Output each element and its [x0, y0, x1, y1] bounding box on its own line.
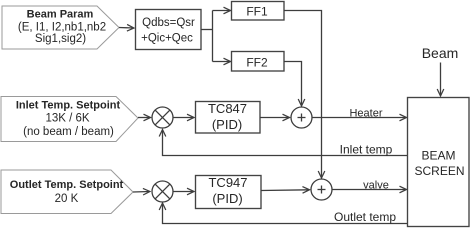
svg-text:Beam: Beam	[422, 45, 459, 61]
svg-text:valve: valve	[363, 180, 389, 192]
svg-text:Inlet temp: Inlet temp	[340, 143, 393, 157]
svg-text:TC847: TC847	[208, 101, 247, 116]
svg-text:SCREEN: SCREEN	[414, 164, 464, 178]
svg-text:FF1: FF1	[246, 4, 268, 18]
svg-text:Qdbs=Qsr: Qdbs=Qsr	[142, 17, 195, 29]
svg-text:(no beam / beam): (no beam / beam)	[23, 126, 114, 138]
svg-text:Heater: Heater	[349, 108, 382, 120]
svg-text:(PID): (PID)	[212, 117, 242, 132]
svg-text:BEAM: BEAM	[421, 149, 455, 163]
svg-text:Outlet Temp. Setpoint: Outlet Temp. Setpoint	[10, 179, 124, 191]
svg-text:Inlet Temp. Setpoint: Inlet Temp. Setpoint	[16, 100, 121, 112]
svg-text:13K / 6K: 13K / 6K	[45, 113, 89, 125]
svg-text:+Qic+Qec: +Qic+Qec	[141, 33, 193, 45]
svg-text:(E, I1, I2,nb1,nb2: (E, I1, I2,nb1,nb2	[18, 22, 106, 34]
svg-text:(PID): (PID)	[212, 191, 242, 206]
svg-text:FF2: FF2	[246, 56, 268, 70]
svg-text:Sig1,sig2): Sig1,sig2)	[35, 33, 86, 45]
svg-text:20 K: 20 K	[55, 193, 79, 205]
svg-text:Beam Param: Beam Param	[27, 9, 94, 21]
svg-text:Outlet temp: Outlet temp	[334, 210, 396, 224]
svg-text:TC947: TC947	[208, 175, 247, 190]
